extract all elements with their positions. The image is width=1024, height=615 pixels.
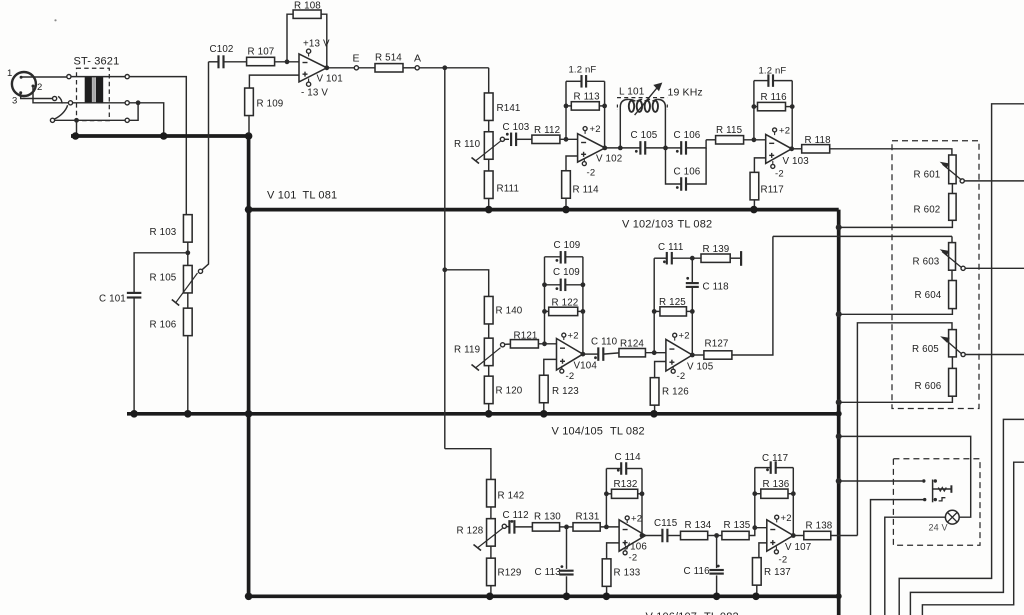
terminal circle secondary bottom bbox=[125, 118, 129, 122]
junction R137 bus bbox=[752, 593, 760, 601]
label R135 bbox=[724, 520, 751, 531]
resistor R115 bbox=[716, 136, 744, 144]
resistor R112 bbox=[532, 135, 560, 143]
wire R138 right bbox=[831, 535, 858, 537]
junction V101 inverting input bbox=[285, 59, 290, 64]
junction R113 right bbox=[602, 104, 607, 109]
svg-text:C 110: C 110 bbox=[591, 337, 618, 348]
capacitor C113 bbox=[559, 571, 573, 575]
wire V103 noninverting bbox=[754, 158, 765, 172]
ground bus band3 bbox=[249, 594, 839, 598]
wire primary bottom inside bbox=[73, 102, 126, 104]
label V106 bbox=[624, 542, 648, 553]
svg-text:R132: R132 bbox=[614, 479, 638, 490]
capacitor C102 bbox=[219, 55, 224, 68]
label V102 bbox=[596, 154, 622, 165]
svg-text:R 133: R 133 bbox=[614, 568, 641, 579]
svg-text:E: E bbox=[353, 53, 360, 65]
label R117 bbox=[761, 185, 784, 196]
junction C109b right bbox=[581, 282, 586, 287]
junction R606 bus bbox=[836, 399, 842, 405]
junction V106 inverting bbox=[604, 525, 609, 530]
wire pin3 to switch contact bbox=[21, 93, 53, 99]
feed line vertical bbox=[444, 68, 446, 449]
capacitor C101 bbox=[127, 293, 142, 298]
svg-text:C 106: C 106 bbox=[674, 130, 701, 141]
label R128 bbox=[457, 526, 484, 537]
op-amp V105 bbox=[666, 339, 692, 371]
wire R125 stubs bbox=[654, 310, 692, 312]
wire C113 vertical bbox=[566, 527, 568, 595]
label R124 bbox=[620, 339, 644, 350]
ground bus top-left bbox=[71, 134, 249, 138]
ground bus band2 dot right bbox=[836, 411, 842, 417]
node A circle bbox=[415, 66, 419, 70]
wire V107 noninverting bbox=[759, 543, 767, 558]
svg-text:V 106/107: V 106/107 bbox=[646, 611, 698, 615]
svg-text:R 116: R 116 bbox=[761, 92, 788, 103]
junction R111 bus bbox=[485, 206, 493, 214]
junction R114 bus bbox=[562, 206, 570, 214]
junction C116 bus bbox=[713, 593, 721, 601]
svg-text:R 605: R 605 bbox=[912, 344, 939, 355]
potentiometer R110 bbox=[472, 132, 501, 164]
wire C110 to R124 bbox=[603, 353, 619, 354]
svg-text:C 101: C 101 bbox=[99, 294, 126, 305]
wire lamp left bbox=[885, 517, 946, 615]
label C111 bbox=[658, 242, 683, 253]
label R125 bbox=[659, 297, 686, 308]
wire R131 to V106 bbox=[600, 526, 619, 528]
power pin -2 V107 bbox=[774, 546, 778, 553]
junction V107 inverting bbox=[752, 525, 757, 530]
label E bbox=[353, 53, 360, 65]
label +13V bbox=[303, 39, 330, 50]
transformer winding bar right bbox=[96, 77, 103, 104]
wire C102 to R107 bbox=[224, 61, 247, 63]
power pin -2 V102 bbox=[582, 158, 586, 165]
wire R116 right stub bbox=[786, 106, 793, 108]
svg-text:R 137: R 137 bbox=[764, 567, 791, 578]
resistor R111 bbox=[484, 171, 493, 199]
wire V102 noninverting bbox=[566, 156, 578, 171]
junction lamp bus bbox=[836, 433, 842, 439]
junction R116 right bbox=[790, 104, 795, 109]
svg-text:R 119: R 119 bbox=[454, 345, 480, 356]
junction R126 bus bbox=[650, 410, 658, 418]
wire bus to switch top bbox=[839, 480, 923, 482]
connector pin 3 bbox=[19, 91, 22, 94]
wiper circle R128 bbox=[502, 524, 506, 528]
power pin +2 V105 bbox=[673, 333, 677, 340]
label +2 V105 bbox=[679, 331, 690, 342]
resistor R137 bbox=[752, 558, 761, 586]
label R114 bbox=[573, 185, 600, 196]
wire wiper to C103 bbox=[504, 138, 509, 140]
resistor R135 bbox=[722, 531, 749, 539]
wire output C routing bbox=[922, 462, 1024, 615]
dashed box R601-R606 bbox=[892, 141, 979, 409]
junction ground tap bbox=[74, 118, 79, 123]
label R115 bbox=[716, 125, 743, 136]
label V105 bbox=[687, 361, 714, 372]
wire to R115 bbox=[706, 139, 715, 141]
label -2 V104 bbox=[566, 371, 575, 382]
potentiometer R128 bbox=[474, 519, 503, 551]
wire tap to ground bus bbox=[76, 120, 78, 134]
junction R117 bus bbox=[750, 206, 758, 214]
wire R124 to V105 bbox=[646, 352, 666, 354]
label V102/103 TL082 bbox=[622, 219, 712, 231]
svg-text:R 114: R 114 bbox=[573, 185, 600, 196]
label R120 bbox=[496, 386, 523, 397]
resistor R113 bbox=[571, 102, 599, 110]
svg-text:R 128: R 128 bbox=[457, 526, 484, 537]
capacitor C116 bbox=[709, 570, 723, 574]
svg-text:R 113: R 113 bbox=[574, 92, 601, 103]
wire C114 loop bbox=[606, 468, 642, 470]
label R109 bbox=[257, 99, 284, 110]
resistor R604 bbox=[949, 281, 957, 309]
svg-text:V 107: V 107 bbox=[785, 542, 811, 553]
wire secondary top bbox=[129, 77, 186, 215]
wire R128 to R129 bbox=[490, 546, 492, 558]
svg-text:+2: +2 bbox=[590, 124, 601, 135]
label pin 3 bbox=[12, 96, 17, 107]
junction V105 output bbox=[690, 353, 695, 358]
svg-text:R141: R141 bbox=[497, 103, 521, 114]
label R121 bbox=[514, 330, 538, 341]
svg-text:R 122: R 122 bbox=[552, 298, 579, 309]
svg-text:C115: C115 bbox=[654, 518, 678, 529]
svg-text:V 102/103: V 102/103 bbox=[622, 219, 674, 231]
svg-text:TL 081: TL 081 bbox=[303, 190, 338, 202]
capacitor C117 bbox=[771, 461, 776, 474]
junction V105 inverting bbox=[652, 350, 657, 355]
label R129 bbox=[498, 568, 522, 579]
wire V106 noninverting bbox=[607, 543, 620, 559]
label R136 bbox=[763, 479, 790, 490]
wire R108 to output bbox=[321, 14, 327, 68]
junction V104 inverting bbox=[542, 341, 547, 346]
wire R514 to node A bbox=[403, 67, 415, 69]
dot C116 bbox=[717, 565, 720, 568]
label R601 bbox=[914, 170, 941, 181]
ground bus band3 corner dot bbox=[245, 593, 253, 601]
wire C117 loop bbox=[755, 467, 794, 469]
label V101 bbox=[317, 74, 343, 85]
svg-text:TL 082: TL 082 bbox=[610, 426, 645, 438]
label R138 bbox=[806, 521, 833, 532]
svg-text:TL 082: TL 082 bbox=[704, 611, 739, 615]
junction V102 inverting bbox=[564, 137, 569, 142]
capacitor C109 top bbox=[561, 251, 566, 263]
svg-text:-2: -2 bbox=[779, 555, 788, 566]
svg-text:R121: R121 bbox=[514, 330, 538, 341]
label -2 V103 bbox=[775, 169, 784, 180]
svg-text:1.2 nF: 1.2 nF bbox=[759, 66, 787, 77]
svg-text:R 602: R 602 bbox=[914, 205, 941, 216]
label C118 bbox=[703, 282, 730, 293]
label -2 V105 bbox=[677, 371, 686, 382]
svg-text:C 112: C 112 bbox=[503, 510, 529, 521]
node E circle bbox=[354, 66, 358, 70]
label R126 bbox=[662, 387, 689, 398]
label A bbox=[414, 53, 421, 65]
dot C113 bbox=[561, 565, 564, 568]
power pin -2 V105 bbox=[671, 366, 675, 373]
svg-text:C 109: C 109 bbox=[554, 240, 581, 251]
svg-text:R129: R129 bbox=[498, 568, 522, 579]
wire R105 to R106 bbox=[187, 294, 189, 308]
terminal circle primary top bbox=[67, 75, 71, 79]
capacitor C114 bbox=[621, 462, 626, 475]
svg-text:C 106: C 106 bbox=[674, 167, 701, 178]
label R103 bbox=[150, 227, 177, 238]
wire R117 to bus bbox=[753, 200, 755, 208]
label R130 bbox=[534, 512, 561, 523]
wire feed band2 bbox=[445, 270, 489, 297]
capacitor 1.2nF V102 bbox=[582, 75, 587, 88]
resistor R107 bbox=[247, 57, 275, 65]
resistor R141 bbox=[484, 93, 493, 121]
feedback left vertical V106 bbox=[605, 469, 607, 527]
label V106/107 TL082 bbox=[646, 611, 739, 615]
termination bar R139 bbox=[730, 251, 741, 266]
junction R113 left bbox=[564, 104, 569, 109]
resistor R120 bbox=[484, 376, 493, 404]
label R113 bbox=[574, 92, 601, 103]
resistor R130 bbox=[532, 523, 559, 531]
label -2 V107 bbox=[779, 555, 788, 566]
resistor R132 bbox=[612, 489, 638, 498]
resistor R103 bbox=[183, 215, 192, 243]
feedback right vertical V107 bbox=[792, 468, 794, 536]
svg-text:R 136: R 136 bbox=[763, 479, 790, 490]
power pin +2 V106 bbox=[625, 516, 629, 523]
op-amp V103 bbox=[766, 134, 792, 163]
svg-text:R 112: R 112 bbox=[534, 125, 560, 136]
junction R604 bus bbox=[836, 311, 842, 317]
switch slow-action hook bbox=[939, 498, 946, 501]
wire C102 left bbox=[209, 61, 219, 63]
junction C101 bus bbox=[130, 410, 138, 418]
ground bus band2 bbox=[127, 412, 839, 416]
svg-text:R 135: R 135 bbox=[724, 520, 751, 531]
power pin +2 V107 bbox=[775, 515, 779, 522]
feedback left vertical V103 bbox=[753, 81, 755, 140]
wire R127 to R603 riser bbox=[732, 236, 773, 355]
wire secondary mid bbox=[129, 103, 164, 135]
label +2 V103 bbox=[779, 126, 790, 137]
wire R130 to R131 bbox=[560, 526, 573, 528]
switch contact A bbox=[53, 96, 57, 100]
svg-text:1: 1 bbox=[7, 68, 12, 79]
svg-text:C 109: C 109 bbox=[553, 267, 580, 278]
junction R122 left bbox=[542, 309, 547, 314]
label R137 bbox=[764, 567, 791, 578]
dot C105 bbox=[635, 150, 638, 153]
svg-text:C 113: C 113 bbox=[535, 567, 562, 578]
label ST- 3621 bbox=[74, 56, 120, 68]
wire C106 top right bbox=[686, 140, 706, 148]
label 1.2nF V102 bbox=[569, 65, 597, 76]
label +2 V107 bbox=[781, 513, 792, 524]
dot C109 top bbox=[556, 259, 559, 262]
wire R138 to R605 bbox=[857, 323, 952, 536]
wire R601 wiper out bbox=[964, 180, 1024, 182]
op-amp V104 bbox=[557, 339, 583, 371]
dashed box lamp/switch bbox=[893, 459, 980, 546]
junction R602 bus bbox=[836, 224, 842, 230]
svg-text:R 514: R 514 bbox=[375, 53, 402, 64]
svg-text:1.2 nF: 1.2 nF bbox=[569, 65, 597, 76]
junction L101 tap bbox=[618, 146, 623, 151]
dot C106 top bbox=[676, 150, 679, 153]
label +2 V106 bbox=[631, 514, 642, 525]
transformer ST-3621 dashed box bbox=[77, 68, 110, 120]
svg-text:V 101: V 101 bbox=[317, 74, 343, 85]
svg-text:V 102: V 102 bbox=[596, 154, 622, 165]
wire into R141 bbox=[488, 68, 490, 93]
wire node A to R141 column bbox=[419, 67, 489, 69]
potentiometer R605 bbox=[942, 330, 962, 357]
wire V103 out to R118 bbox=[792, 148, 802, 150]
wire R112 to V102 bbox=[560, 138, 578, 140]
feedback right vertical V104 bbox=[582, 257, 584, 354]
svg-text:ST- 3621: ST- 3621 bbox=[74, 56, 120, 68]
svg-text:A: A bbox=[414, 53, 421, 65]
label C101 bbox=[99, 294, 126, 305]
svg-text:R 130: R 130 bbox=[534, 512, 561, 523]
junction band2 feed bbox=[442, 267, 447, 272]
label R127 bbox=[705, 339, 729, 350]
label C116 bbox=[684, 566, 711, 577]
wire C118 vertical bbox=[691, 258, 693, 311]
label R132 bbox=[614, 479, 638, 490]
svg-text:R 603: R 603 bbox=[913, 257, 940, 268]
wire R127 to R603 bbox=[773, 236, 952, 242]
wire V107 out to R138 bbox=[793, 535, 804, 537]
wire R132 stubs bbox=[606, 493, 642, 495]
junction C118 top bbox=[690, 256, 695, 261]
wire R103 to R105 bbox=[187, 242, 189, 265]
junction R133 bus bbox=[603, 593, 611, 601]
svg-text:+2: +2 bbox=[781, 513, 792, 524]
svg-text:R 109: R 109 bbox=[257, 99, 284, 110]
svg-text:C102: C102 bbox=[210, 44, 234, 55]
wire R111 to bus bbox=[488, 199, 490, 209]
label R131 bbox=[576, 512, 600, 523]
power pin -2 V103 bbox=[771, 161, 775, 168]
junction C106 node bbox=[663, 146, 668, 151]
switch actuator bbox=[933, 485, 952, 493]
resistor R134 bbox=[681, 531, 708, 539]
svg-text:R 123: R 123 bbox=[552, 386, 579, 397]
dot C118 bbox=[686, 277, 689, 280]
resistor R129 bbox=[487, 558, 496, 586]
label C103 bbox=[503, 122, 530, 133]
junction R123 bus bbox=[540, 410, 548, 418]
wire R114 to bus bbox=[565, 198, 567, 208]
svg-text:R 115: R 115 bbox=[716, 125, 743, 136]
label V104 bbox=[574, 360, 598, 371]
potentiometer R105 bbox=[172, 265, 198, 305]
potentiometer R601 bbox=[941, 155, 961, 184]
svg-text:V 104/105: V 104/105 bbox=[552, 426, 604, 438]
junction C113 branch bbox=[564, 525, 569, 530]
label R111 bbox=[497, 184, 520, 195]
feedback left vertical V104 bbox=[544, 257, 546, 344]
capacitor C105 bbox=[640, 141, 645, 155]
label R107 bbox=[248, 47, 275, 58]
wire switch bottom bbox=[871, 500, 925, 615]
resistor R602 bbox=[949, 194, 956, 221]
wire C115 to R134 bbox=[667, 535, 680, 537]
svg-text:-2: -2 bbox=[775, 169, 784, 180]
inductor L101 bbox=[617, 98, 668, 148]
label R119 bbox=[454, 345, 480, 356]
svg-text:R 107: R 107 bbox=[248, 47, 275, 58]
wire V104 out to C110 bbox=[583, 353, 598, 355]
svg-text:C 118: C 118 bbox=[703, 282, 730, 293]
svg-text:-2: -2 bbox=[566, 371, 575, 382]
wire C103 to R112 bbox=[516, 138, 532, 140]
label R110 bbox=[454, 139, 481, 150]
label R139 bbox=[703, 244, 730, 255]
label R602 bbox=[914, 205, 941, 216]
dot C114 bbox=[617, 469, 620, 472]
svg-text:-2: -2 bbox=[587, 168, 596, 179]
wire feed band3 bbox=[445, 449, 491, 480]
power pin -2 V104 bbox=[560, 366, 564, 373]
capacitor C103 bbox=[511, 133, 516, 147]
label -13V bbox=[301, 88, 328, 99]
wire R105 wiper to C102 bbox=[202, 62, 209, 270]
wire R122 stubs bbox=[545, 310, 583, 312]
potentiometer R603 bbox=[941, 243, 962, 271]
label R123 bbox=[552, 386, 579, 397]
wire R603 wiper out bbox=[965, 267, 1024, 269]
dot C103 bbox=[506, 133, 509, 136]
svg-text:V 105: V 105 bbox=[687, 361, 714, 372]
label R606 bbox=[915, 381, 942, 392]
switch contact C bbox=[50, 118, 54, 122]
junction R125 left bbox=[652, 309, 657, 314]
junction C109b left bbox=[542, 282, 547, 287]
junction C116 branch bbox=[714, 533, 719, 538]
label V107 bbox=[785, 542, 811, 553]
label R141 bbox=[497, 103, 521, 114]
resistor R136 bbox=[761, 489, 788, 498]
wire V101 noninverting input bbox=[249, 75, 299, 88]
label +2 V104 bbox=[568, 331, 579, 342]
ground bus band1 bbox=[249, 208, 839, 212]
op-amp V107 bbox=[767, 520, 794, 551]
resistor R138 bbox=[804, 531, 831, 539]
svg-text:+2: +2 bbox=[779, 126, 790, 137]
label +2 V102 bbox=[590, 124, 601, 135]
wire R126 to bus bbox=[654, 405, 656, 412]
resistor R106 bbox=[183, 308, 192, 336]
wire pin1 to transformer primary top bbox=[21, 76, 67, 78]
wire wiper to R121 bbox=[505, 343, 510, 345]
label C112 bbox=[503, 510, 529, 521]
label R133 bbox=[614, 568, 641, 579]
wire R118 to R601 bbox=[830, 149, 952, 155]
label C113 bbox=[535, 567, 562, 578]
resistor R125 bbox=[660, 307, 687, 316]
